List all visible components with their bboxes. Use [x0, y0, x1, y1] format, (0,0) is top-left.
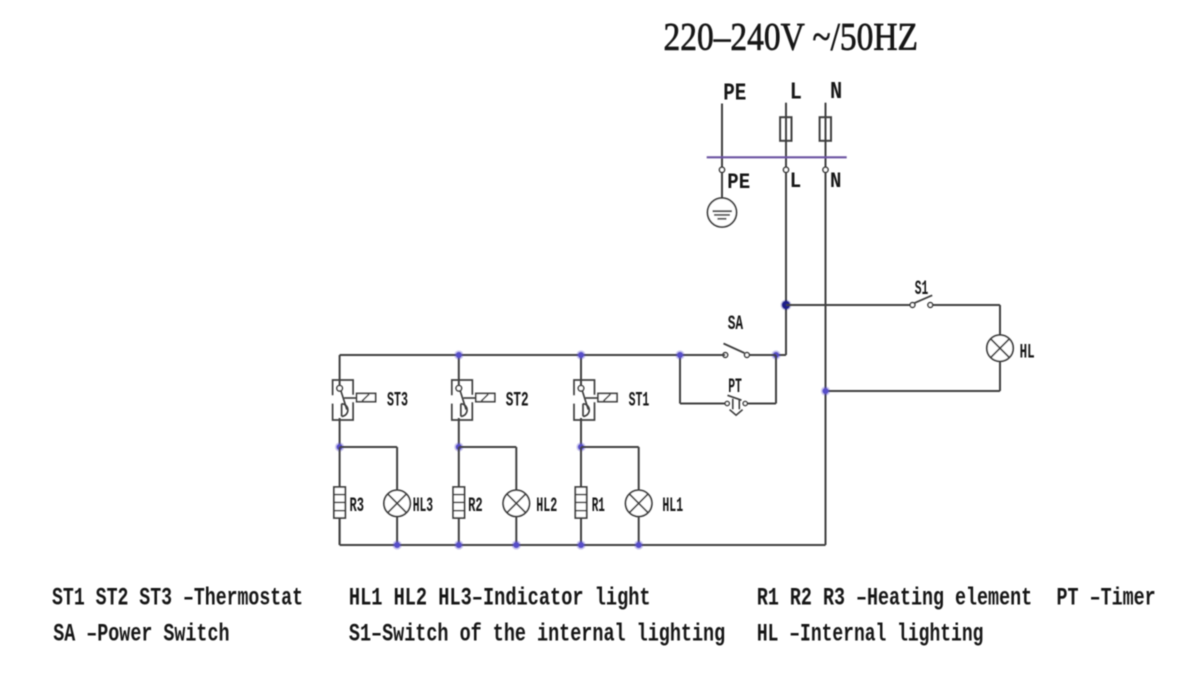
thermostat ST2 blade: [460, 391, 466, 410]
heating element R1: [575, 487, 586, 518]
wire node to lamp HL2: [459, 446, 517, 448]
svg-text:HL –Internal lighting: HL –Internal lighting: [757, 620, 984, 649]
svg-text:SA: SA: [728, 313, 743, 336]
node ST3 out: [335, 442, 344, 451]
timer PT contacts: [725, 401, 729, 405]
earth symbol outline: [708, 198, 737, 227]
wire top bus left: [340, 354, 726, 356]
node SA right: [771, 350, 780, 359]
svg-text:ST1: ST1: [629, 390, 650, 413]
thermostat ST1 blade: [582, 391, 588, 410]
thermostat ST1 sensor box: [598, 393, 617, 401]
thermostat ST1 sensor diagonal: [604, 394, 611, 401]
thermostat ST2 element: [461, 404, 467, 417]
thermostat ST3 contact lead: [344, 397, 357, 399]
wire PT right horizontal: [747, 403, 776, 405]
svg-text:HL: HL: [1020, 341, 1035, 364]
thermostat ST3 element: [342, 404, 348, 417]
terminal N: [823, 167, 828, 172]
thermostat ST1 box: [574, 380, 595, 420]
terminal PE: [719, 167, 724, 172]
node bottom bus x581: [576, 540, 585, 549]
heating element R2: [453, 487, 464, 518]
svg-text:L: L: [790, 169, 801, 194]
node bus ST2: [454, 350, 463, 359]
thermostat ST2 box: [452, 380, 473, 420]
svg-text:R1: R1: [592, 495, 605, 518]
thermostat ST2 pivot: [456, 386, 462, 392]
svg-text:HL2: HL2: [536, 495, 557, 518]
node ST1 out: [576, 442, 585, 451]
node bottom bus x638: [634, 540, 643, 549]
thermostat ST1 pivot: [578, 386, 584, 392]
svg-text:PE: PE: [723, 81, 746, 108]
junction node (L feed): [781, 300, 792, 311]
lamp HL2 cross: [507, 494, 526, 513]
wire L drop (below fuse): [785, 141, 787, 355]
lamp HL1 circle: [626, 490, 652, 516]
thermostat ST1 element: [583, 404, 589, 417]
wire lamp HL2 drop: [515, 447, 517, 490]
thermostat ST2 sensor box: [476, 393, 495, 401]
node bus SA/PT: [675, 350, 684, 359]
terminal L: [783, 167, 788, 172]
wire R1 to bus: [580, 518, 582, 545]
wire ST3 to node: [339, 418, 341, 447]
svg-text:SA –Power Switch: SA –Power Switch: [53, 620, 229, 649]
thermostat ST3 sensor box: [357, 393, 376, 401]
wire PT left drop: [679, 355, 681, 404]
timer PT blade: [728, 395, 742, 400]
wire R3 to bus: [339, 518, 341, 545]
heating element R3: [334, 487, 345, 518]
svg-text:ST1 ST2 ST3 –Thermostat: ST1 ST2 ST3 –Thermostat: [52, 584, 303, 613]
svg-text:PT –Timer: PT –Timer: [1057, 584, 1156, 613]
switch SA blade: [724, 344, 745, 354]
lamp HL2 circle: [503, 490, 529, 516]
heating element R2 bars: [453, 494, 464, 496]
svg-text:HL3: HL3: [413, 495, 433, 518]
lamp HL3 circle: [384, 490, 410, 516]
wire ST2 feed: [458, 355, 460, 386]
timer PT arrow symbol: [730, 399, 743, 415]
switch S1 contacts: [910, 303, 915, 308]
node bottom bus x516: [512, 540, 521, 549]
thermostat ST2 contact lead: [463, 397, 476, 399]
wire ST3 feed: [339, 355, 341, 386]
node bus ST1: [576, 350, 585, 359]
wire node to lamp HL3: [340, 446, 398, 448]
wire N drop (above fuse): [825, 103, 827, 141]
node bottom bus x458: [454, 540, 463, 549]
wire L down-left to SA node: [776, 354, 786, 356]
lamp HL3 cross: [388, 494, 407, 513]
switch SA contacts: [723, 353, 728, 358]
heating element R1 bars: [575, 494, 586, 496]
wire PE to earth: [721, 172, 723, 198]
svg-text:ST3: ST3: [387, 390, 408, 413]
wire R2 to bus: [458, 518, 460, 545]
wire corner down to HL: [999, 305, 1001, 335]
svg-text:HL1: HL1: [662, 495, 683, 518]
wire ST1 feed: [580, 355, 582, 386]
wire SA right contact: [749, 354, 776, 356]
svg-text:R1 R2 R3 –Heating element: R1 R2 R3 –Heating element: [757, 584, 1032, 613]
svg-text:S1: S1: [915, 278, 929, 301]
heating element R3 bars: [334, 494, 345, 496]
svg-text:S1–Switch of the internal ligh: S1–Switch of the internal lighting: [349, 620, 725, 649]
wire lamp HL3 to bus: [396, 517, 398, 546]
wire node to R2: [458, 447, 460, 487]
fuse FU2 on N: [820, 117, 831, 141]
node bottom bus x397: [393, 540, 402, 549]
wire lamp HL1 drop: [638, 447, 640, 490]
wire ST2 to node: [458, 418, 460, 447]
wire PT left horizontal: [680, 403, 725, 405]
wire node to S1: [786, 304, 912, 306]
wire N drop (below fuse): [825, 141, 827, 545]
thermostat ST2 sensor diagonal: [481, 394, 488, 401]
wire bottom bus: [340, 544, 826, 546]
svg-text:R2: R2: [468, 495, 483, 518]
wire lamp HL1 to bus: [638, 517, 640, 546]
wire HL return to N: [826, 390, 1001, 392]
wire node to R1: [580, 447, 582, 487]
lamp HL circle: [987, 335, 1013, 361]
wire bottom bus left rise: [339, 518, 341, 545]
lamp HL cross: [991, 339, 1010, 358]
earth symbol bars: [713, 210, 732, 212]
wire node to lamp HL1: [581, 446, 639, 448]
wire L drop (above fuse): [785, 103, 787, 141]
svg-text:L: L: [790, 80, 802, 107]
svg-text:R3: R3: [350, 495, 365, 518]
wire PE drop: [721, 104, 723, 168]
switch S1 blade: [914, 295, 932, 303]
lamp HL1 cross: [629, 494, 648, 513]
svg-text:HL1 HL2 HL3–Indicator light: HL1 HL2 HL3–Indicator light: [349, 584, 651, 613]
thermostat ST3 box: [333, 380, 354, 420]
fuse FU1 on L: [780, 117, 791, 141]
wire lamp HL3 drop: [396, 447, 398, 490]
wire S1 to corner: [933, 304, 1000, 306]
thermostat ST3 pivot: [337, 386, 343, 392]
thermostat ST3 sensor diagonal: [362, 394, 369, 401]
svg-text:ST2: ST2: [506, 390, 529, 413]
thermostat ST3 blade: [341, 391, 347, 410]
wire HL down: [999, 361, 1001, 391]
svg-text:220–240V ~/50HZ: 220–240V ~/50HZ: [664, 15, 919, 58]
wire lamp HL2 to bus: [515, 517, 517, 546]
wire ST1 to node: [580, 418, 582, 447]
node on N line: [821, 386, 830, 395]
svg-text:N: N: [830, 169, 841, 194]
terminal strip line: [707, 156, 847, 158]
thermostat ST1 contact lead: [586, 397, 599, 399]
svg-text:PE: PE: [727, 170, 750, 195]
wire PT right rise: [775, 355, 777, 404]
wire node to R3: [339, 447, 341, 487]
svg-text:PT: PT: [728, 376, 742, 399]
node ST2 out: [454, 442, 463, 451]
svg-text:N: N: [830, 79, 842, 106]
